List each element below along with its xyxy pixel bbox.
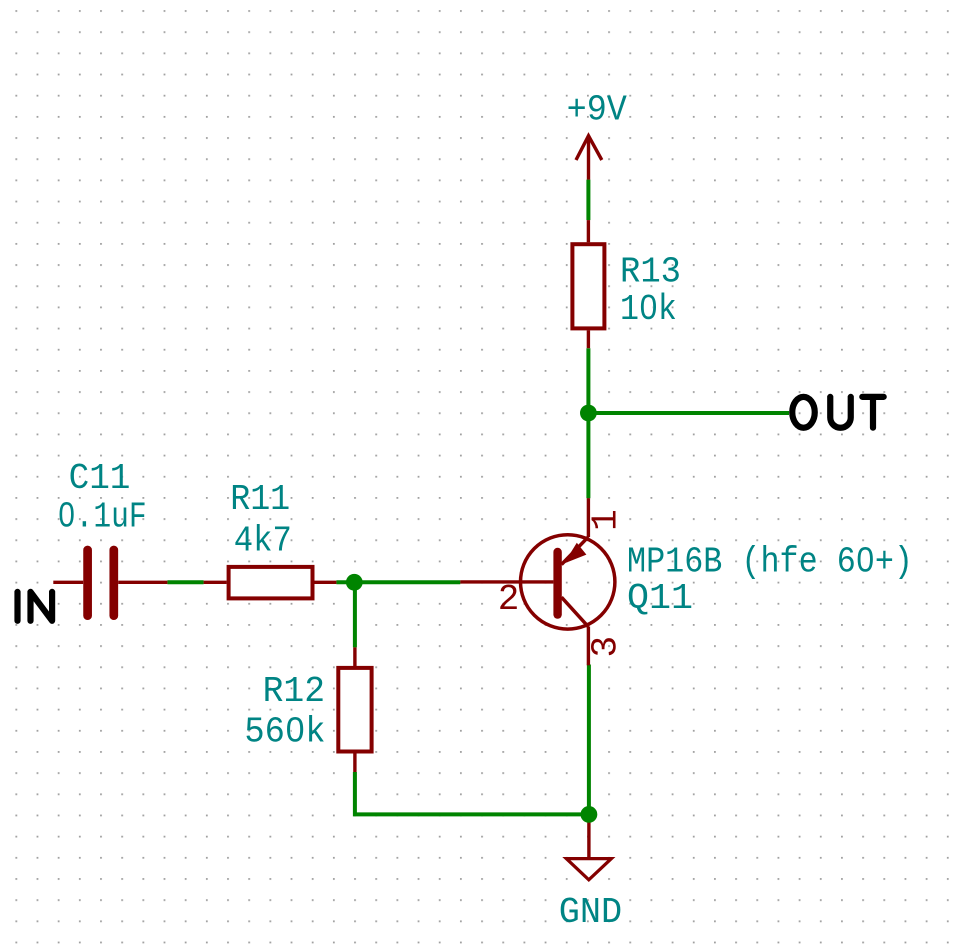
svg-text:3: 3 — [586, 636, 627, 658]
svg-text:R13: R13 — [620, 251, 681, 292]
svg-text:560k: 560k — [244, 711, 325, 752]
svg-text:Q11: Q11 — [627, 578, 693, 619]
svg-text:0.1uF: 0.1uF — [58, 496, 147, 537]
svg-text:GND: GND — [559, 892, 622, 933]
svg-text:C11: C11 — [69, 458, 131, 499]
svg-text:2: 2 — [498, 579, 520, 620]
svg-text:+9V: +9V — [567, 89, 628, 130]
svg-text:4k7: 4k7 — [234, 521, 292, 562]
svg-text:R12: R12 — [263, 671, 325, 712]
svg-text:1: 1 — [585, 509, 626, 531]
svg-text:MP16B (hfe 60+): MP16B (hfe 60+) — [627, 542, 913, 583]
svg-text:R11: R11 — [230, 479, 290, 520]
